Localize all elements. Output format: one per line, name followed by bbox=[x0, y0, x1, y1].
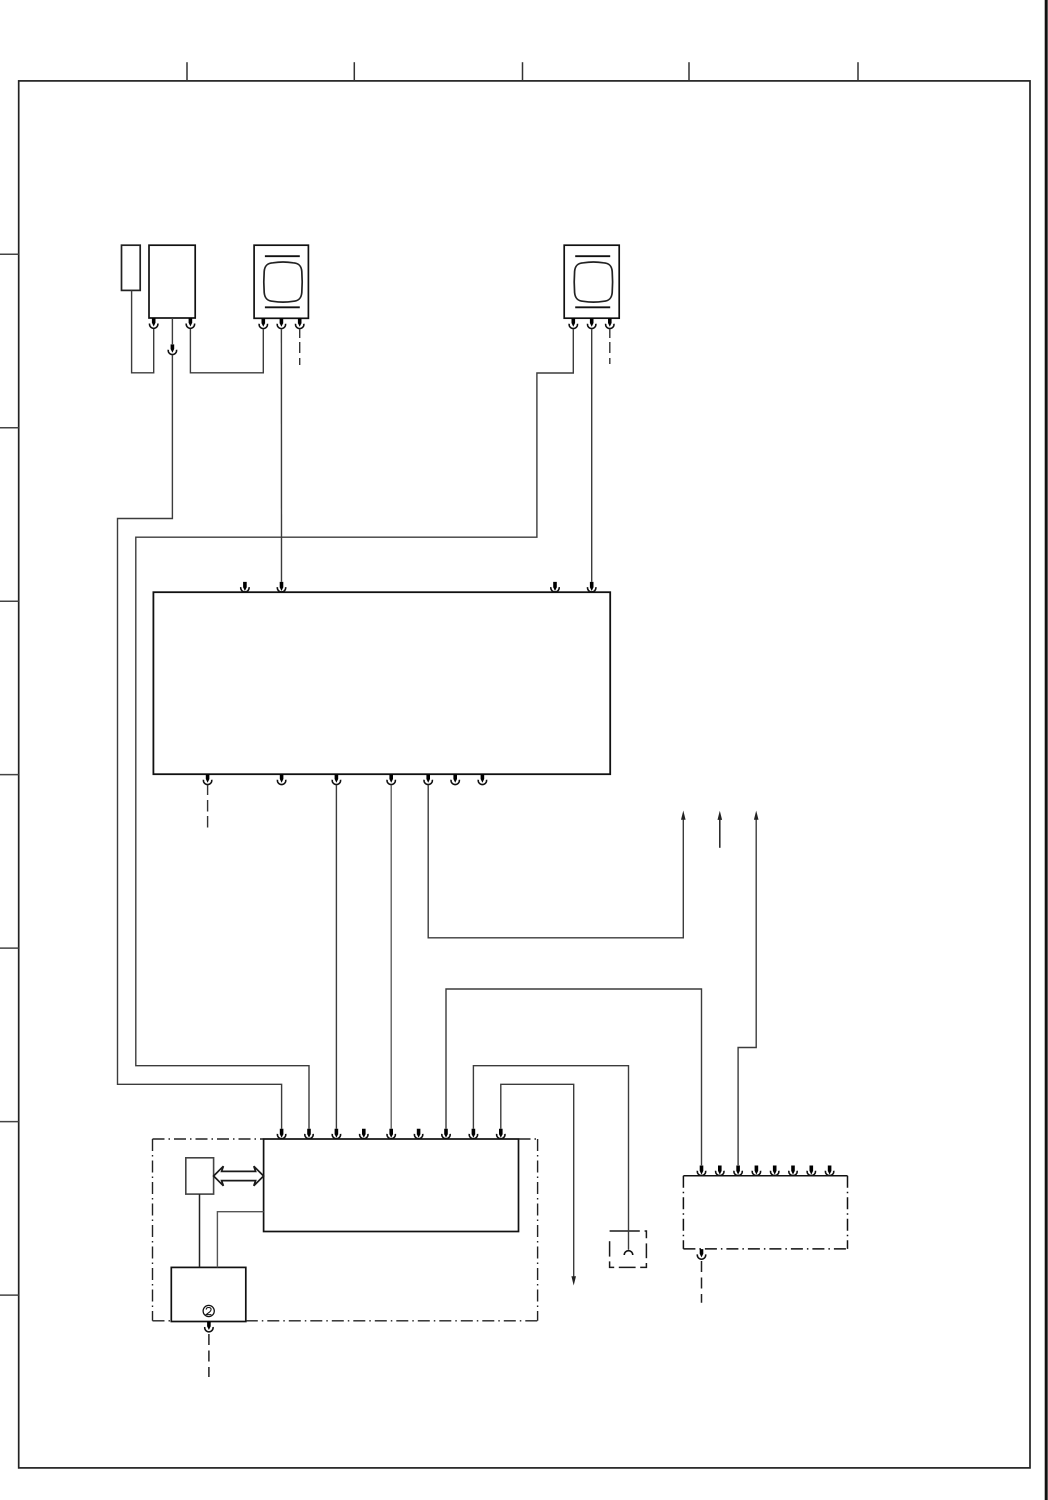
N3 top pin 2 bbox=[305, 1129, 313, 1139]
wire N2 bottom pin 5 to up-arrow bbox=[428, 785, 683, 938]
X1 pin 6 bbox=[789, 1166, 797, 1176]
pin 2 of P1 bbox=[277, 319, 285, 329]
display unit P1 bbox=[254, 245, 308, 318]
wire N2 bottom pin 4 to N3 pin 5 bbox=[390, 785, 392, 1129]
pin 3 of P2 bbox=[606, 318, 614, 328]
N3 top pin 5 bbox=[387, 1129, 395, 1139]
N2 bottom pin 3 bbox=[332, 774, 340, 784]
N2 bottom pin 2 bbox=[277, 774, 285, 784]
wire stub N1 pin 2 upper bbox=[171, 318, 173, 344]
short up-arrow signal bbox=[719, 820, 721, 848]
N2 top pin d bbox=[588, 582, 596, 592]
frame tick marks left bbox=[0, 254, 19, 1295]
wire N2 bottom pin 3 to N3 pin 3 bbox=[335, 785, 337, 1129]
control unit N1 bbox=[149, 245, 195, 318]
up arrowhead on wire from N2 pin 5 bbox=[681, 811, 686, 820]
amplifier module (bottom box) bbox=[171, 1267, 246, 1321]
dashed stub N2 bottom pin 1 bbox=[207, 785, 209, 795]
wire N1 pin 2 to N3 pin 1 bbox=[118, 355, 282, 1129]
N2 top pin c bbox=[551, 582, 559, 592]
control unit N2 (central) bbox=[153, 592, 610, 774]
wire P2 pin 1 to N3 pin 2 bbox=[136, 329, 574, 1129]
X1 pin 2 bbox=[716, 1166, 724, 1176]
pin 1 of P1 bbox=[259, 319, 267, 329]
down arrowhead of N3 pin 9 wire bbox=[571, 1276, 576, 1285]
X1 pin 1 bbox=[697, 1166, 705, 1176]
dash-dot unit enclosure (left) bbox=[153, 1139, 538, 1321]
connector strip X1 (right, dash-dot box) bbox=[683, 1176, 847, 1249]
N3 top pin 8 bbox=[469, 1129, 477, 1139]
wire N3 pin 9 to down-arrow bbox=[501, 1084, 574, 1276]
pin 3 of N1 bbox=[186, 318, 194, 328]
N2 bottom pin 6 bbox=[451, 774, 459, 784]
wire S1 to N1 pin 1 bbox=[132, 290, 154, 372]
N3 top pin 1 bbox=[277, 1129, 285, 1139]
connector label 2 (circled) bbox=[203, 1305, 214, 1316]
bidirectional bus arrow between A1 and N3 bbox=[214, 1166, 264, 1186]
component S1 small module bbox=[122, 245, 141, 290]
N2 top pin b bbox=[277, 582, 285, 592]
wire X1 pin 3 to up-arrow bbox=[738, 819, 756, 1165]
X1 pin 3 bbox=[734, 1166, 742, 1176]
socket X2 (small dashed box) bbox=[610, 1231, 647, 1267]
display unit P2 bbox=[564, 245, 619, 318]
wire P2 pin 2 to N2 top pin d bbox=[591, 329, 593, 582]
pin 3 of P1 bbox=[296, 319, 304, 329]
wire N3 pin 8 to socket X2 bbox=[473, 1066, 628, 1250]
dashed lead below X1 bbox=[701, 1261, 703, 1303]
bottom box pin bbox=[205, 1322, 213, 1332]
N3 top pin 4 bbox=[360, 1129, 368, 1139]
wire N1 pin 3 to P1 pin 1 bbox=[190, 329, 263, 373]
wire N3 pin 7 to X1 pin 1 bbox=[446, 989, 702, 1165]
pin 1 of N1 bbox=[150, 318, 158, 328]
X1 pin 8 bbox=[825, 1166, 833, 1176]
N2 bottom pin 4 bbox=[387, 774, 395, 784]
N3 top pin 3 bbox=[332, 1129, 340, 1139]
pin 2 of N1 (inline connector lower) bbox=[168, 344, 176, 354]
N2 bottom pin 1 bbox=[203, 774, 211, 784]
N2 bottom pin 7 bbox=[478, 774, 486, 784]
arrowhead of X1 pin 3 wire bbox=[754, 811, 759, 820]
wire A1 to amplifier bbox=[199, 1194, 201, 1267]
dashed lead below bottom box pin bbox=[208, 1334, 210, 1377]
N3 top pin 6 bbox=[414, 1129, 422, 1139]
N2 top pin a bbox=[241, 582, 249, 592]
arrowhead of short up-arrow bbox=[718, 811, 723, 820]
N2 bottom pin 5 bbox=[424, 774, 432, 784]
wire N3 left to amplifier bbox=[217, 1212, 263, 1268]
N3 top pin 7 bbox=[442, 1129, 450, 1139]
pin 2 of P2 bbox=[588, 318, 596, 328]
dashed stub P1 pin 3 bbox=[299, 329, 301, 338]
pin 1 of P2 bbox=[569, 318, 577, 328]
module A1 (small box in dash-dot enclosure) bbox=[186, 1158, 214, 1194]
wire P1 pin 2 to N2 top pin b bbox=[280, 329, 282, 582]
N3 top pin 9 bbox=[497, 1129, 505, 1139]
socket contact arc in X2 bbox=[624, 1251, 633, 1255]
dashed stub P2 pin 3 bbox=[609, 329, 611, 338]
heavy page edge line right bbox=[1045, 0, 1048, 1500]
X1 bottom pin bbox=[697, 1249, 705, 1259]
frame tick marks top bbox=[187, 62, 858, 81]
X1 pin 7 bbox=[807, 1166, 815, 1176]
control unit N3 (lower left) bbox=[264, 1139, 519, 1232]
X1 pin 5 bbox=[771, 1166, 779, 1176]
X1 pin 4 bbox=[752, 1166, 760, 1176]
